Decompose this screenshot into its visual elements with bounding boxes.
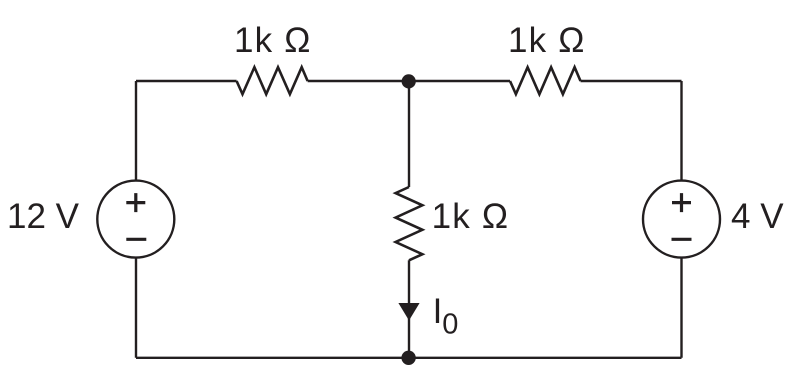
svg-text:12 V: 12 V bbox=[7, 197, 80, 236]
svg-text:1k Ω: 1k Ω bbox=[234, 21, 312, 60]
svg-text:I: I bbox=[433, 292, 443, 331]
svg-text:4 V: 4 V bbox=[731, 197, 784, 236]
svg-text:1k Ω: 1k Ω bbox=[508, 21, 586, 60]
svg-text:1k Ω: 1k Ω bbox=[432, 197, 510, 236]
svg-text:0: 0 bbox=[442, 309, 458, 341]
